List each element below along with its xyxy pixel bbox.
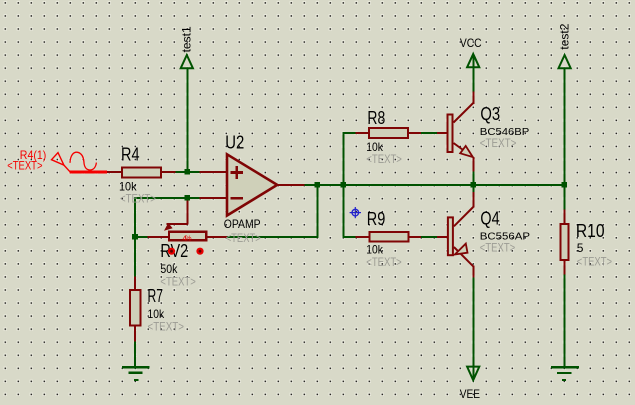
svg-text:Q4: Q4 xyxy=(480,209,499,229)
node junction at Q3/Q4 emitters xyxy=(471,182,477,188)
transistor Q4 emitter diagonal (top) xyxy=(454,207,473,226)
wire: Q3 emitter to node xyxy=(472,172,474,187)
svg-text:<TEXT>: <TEXT> xyxy=(480,241,515,255)
wire: opamp output horizontal main xyxy=(305,184,566,186)
wire: Q4 collector to VEE xyxy=(472,278,474,379)
wire: VCC stem xyxy=(472,56,474,92)
node junction at output / R8R9 branch xyxy=(341,182,347,188)
pin: opamp output xyxy=(277,184,305,186)
ground symbol right xyxy=(551,366,579,368)
terminal arrow test1 xyxy=(181,55,193,68)
terminal arrow VCC xyxy=(467,54,479,67)
wire: generator bright red wire xyxy=(70,170,107,173)
svg-text:test2: test2 xyxy=(557,23,571,49)
svg-text:<TEXT>: <TEXT> xyxy=(7,159,42,173)
resistor R9 body xyxy=(370,232,409,241)
svg-text:R4: R4 xyxy=(121,144,140,164)
RV2 unconnected pin marker left xyxy=(168,248,175,255)
svg-text:VEE: VEE xyxy=(460,387,480,401)
transistor Q3 emitter arrow xyxy=(460,146,473,157)
pin: RV2 right xyxy=(207,236,227,238)
pin: R7 bottom xyxy=(134,327,136,342)
svg-text:U2: U2 xyxy=(225,133,244,153)
pin: Q3 emitter vertical xyxy=(472,157,474,172)
pin: R10 top xyxy=(563,209,565,223)
pin: R8 left xyxy=(355,132,368,134)
wire: RV2 wiper link horizontal (dark red) xyxy=(167,223,189,225)
node junction at - input / wiper xyxy=(185,195,191,201)
pin: Q4 base xyxy=(437,236,447,238)
wire: node to Q4 emitter xyxy=(472,184,474,192)
svg-text:OPAMP: OPAMP xyxy=(224,217,261,231)
transistor Q3 emitter diagonal xyxy=(454,143,465,151)
pin: RV2 left xyxy=(148,236,169,238)
op-amp U2 triangle xyxy=(227,154,277,215)
resistor R4 body xyxy=(122,168,161,178)
generator lead diagonal xyxy=(64,165,70,172)
origin marker (blue crosshair) xyxy=(350,207,361,218)
wire: feedback vertical x=317 xyxy=(316,184,318,238)
svg-text:<TEXT>: <TEXT> xyxy=(160,275,195,289)
transistor Q4 emitter arrow xyxy=(455,244,468,255)
svg-text:<TEXT>: <TEXT> xyxy=(120,191,156,205)
generator sine glyph xyxy=(70,152,96,170)
wire: R9 right to Q4 base xyxy=(421,236,437,238)
potentiometer RV2 wiper arrow xyxy=(164,223,173,231)
wire: RV2 left to bus xyxy=(134,236,148,238)
svg-text:R10: R10 xyxy=(576,221,605,241)
potentiometer RV2 body xyxy=(169,232,206,240)
pin: R9 right xyxy=(409,236,421,238)
svg-text:Q3: Q3 xyxy=(480,104,500,124)
svg-text:<TEXT>: <TEXT> xyxy=(366,152,402,166)
pin: Q4 emitter vertical xyxy=(472,192,474,208)
generator triangle symbol xyxy=(52,153,64,166)
wire: to opamp - input (green part) xyxy=(134,197,200,199)
op-amp plus symbol xyxy=(230,166,243,199)
transistor Q3 base bar xyxy=(448,115,453,153)
pin: opamp + input xyxy=(199,171,226,173)
pin: R8 right xyxy=(409,132,421,134)
wire: R8 right to Q3 base xyxy=(421,132,437,134)
svg-text:VCC: VCC xyxy=(460,36,482,50)
wire: R4 output to opamp + (green part) xyxy=(175,171,200,173)
svg-text:<TEXT>: <TEXT> xyxy=(226,231,261,245)
svg-text:R8: R8 xyxy=(367,108,385,128)
resistor R8 body xyxy=(369,128,408,138)
transistor Q4 base bar xyxy=(448,217,453,255)
node junction at test2/R10 xyxy=(562,182,568,188)
pin: R9 left xyxy=(355,236,369,238)
svg-text:5: 5 xyxy=(577,241,584,255)
terminal arrow test2 xyxy=(559,55,571,68)
RV2 unconnected pin marker right xyxy=(196,248,203,255)
ground symbol left xyxy=(122,366,150,368)
pin: Q3 collector vertical xyxy=(472,91,474,103)
wire: branch to R9 left xyxy=(342,236,355,238)
op-amp minus symbol xyxy=(230,197,243,200)
transistor Q3 collector diagonal xyxy=(454,103,474,123)
svg-text:R7: R7 xyxy=(148,286,164,306)
pin: R7 top xyxy=(134,276,136,289)
pin: R4 right xyxy=(162,171,176,173)
wire: branch vertical x=343 to R8/R9 xyxy=(342,132,344,238)
wire: feedback horizontal RV2 right to x=317 xyxy=(227,236,318,238)
svg-text:<TEXT>: <TEXT> xyxy=(366,255,401,269)
node junction at R4/test1/+ xyxy=(185,169,191,175)
wire: test2 stem down to R10 xyxy=(563,68,565,210)
pin: R10 bottom xyxy=(563,261,565,274)
wire: left vertical bus x=134 xyxy=(134,197,136,277)
svg-text:<TEXT>: <TEXT> xyxy=(480,136,517,150)
svg-text:test1: test1 xyxy=(180,26,194,52)
transistor Q4 collector diagonal (bottom) xyxy=(454,247,473,266)
svg-text:R9: R9 xyxy=(367,209,386,229)
pin: R4 left (dark red) xyxy=(107,171,122,173)
resistor R7 body (vertical) xyxy=(130,290,141,325)
svg-text:<TEXT>: <TEXT> xyxy=(148,319,184,333)
resistor R10 body (vertical) xyxy=(561,224,569,260)
wire: RV2 wiper link vertical (dark red) xyxy=(186,197,188,225)
node junction at RV2 left / bus xyxy=(132,234,138,240)
wire: R10 bottom to ground xyxy=(563,275,565,367)
wire: R7 bottom to ground xyxy=(134,342,136,367)
pin: Q3 base xyxy=(437,132,447,134)
pin: opamp - input xyxy=(199,197,226,199)
wire: branch to R8 left xyxy=(342,132,355,134)
node junction at opamp output / feedback xyxy=(315,182,321,188)
svg-text:<TEXT>: <TEXT> xyxy=(577,255,612,269)
pin: Q4 collector vertical xyxy=(472,266,474,278)
terminal arrow VEE xyxy=(467,367,479,381)
wire: test1 vertical stem xyxy=(186,68,188,174)
